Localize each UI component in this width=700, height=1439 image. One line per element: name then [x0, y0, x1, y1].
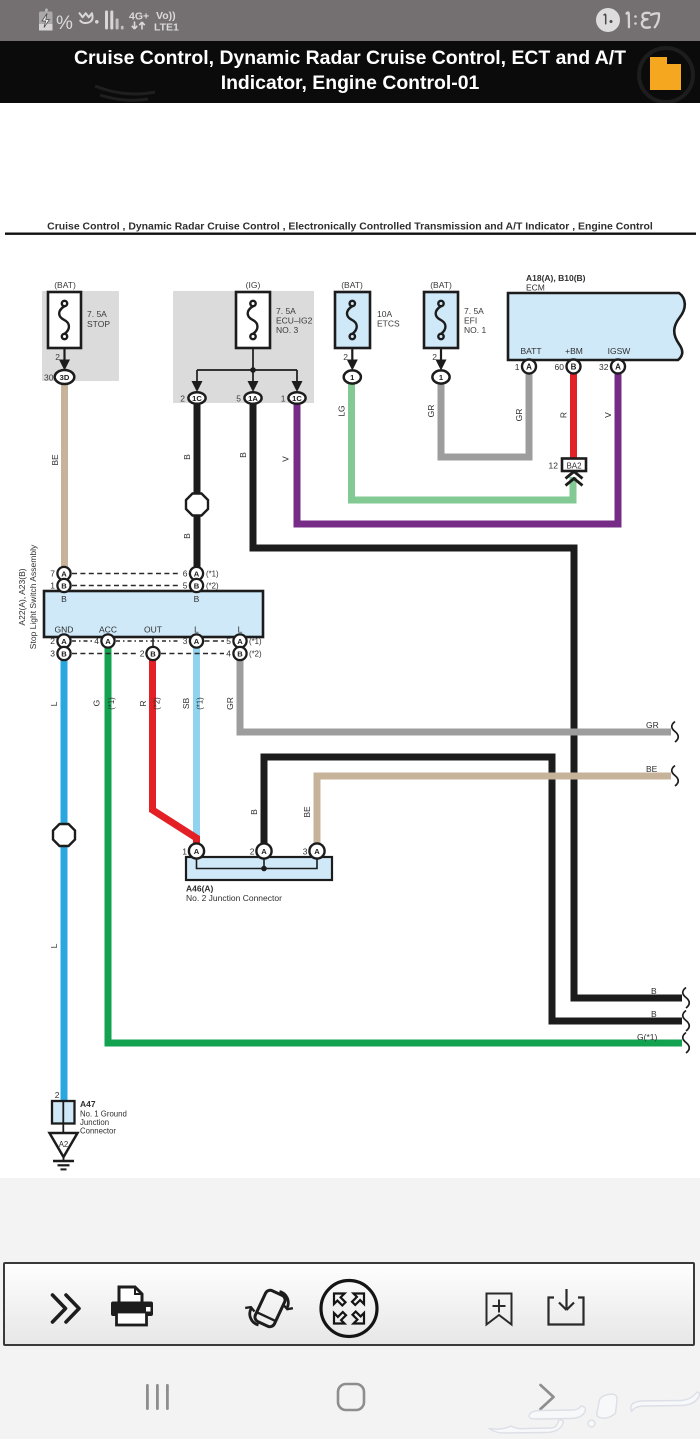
svg-text:B: B: [238, 452, 248, 458]
svg-text:A: A: [194, 847, 200, 856]
svg-text:GR: GR: [225, 697, 235, 710]
svg-text:A: A: [615, 363, 621, 372]
svg-text:(BAT): (BAT): [341, 280, 363, 290]
svg-text:4: 4: [226, 649, 231, 659]
svg-text:BA2: BA2: [566, 462, 582, 471]
svg-text:(IG): (IG): [246, 280, 261, 290]
svg-text:5: 5: [236, 394, 241, 404]
svg-text:10A: 10A: [377, 309, 392, 319]
svg-text:1: 1: [281, 394, 286, 404]
svg-text:2: 2: [55, 352, 60, 362]
svg-text:7. 5A: 7. 5A: [276, 306, 296, 316]
svg-text:5: 5: [226, 636, 231, 646]
svg-text:ETCS: ETCS: [377, 319, 400, 329]
svg-text:12: 12: [549, 461, 559, 471]
svg-text:(*1): (*1): [107, 697, 116, 710]
svg-text:2: 2: [180, 394, 185, 404]
svg-text:A: A: [61, 637, 67, 646]
svg-text:A: A: [61, 569, 67, 578]
svg-text:B: B: [194, 594, 200, 604]
svg-text:2: 2: [55, 1090, 60, 1100]
svg-text:LG: LG: [337, 405, 347, 416]
svg-text:NO. 3: NO. 3: [276, 325, 298, 335]
svg-text:A: A: [105, 637, 111, 646]
svg-text:(*1): (*1): [249, 637, 262, 646]
svg-text:ECM: ECM: [526, 283, 545, 293]
svg-text:2: 2: [343, 352, 348, 362]
svg-text:ECU–IG2: ECU–IG2: [276, 316, 313, 326]
svg-text:7. 5A: 7. 5A: [464, 306, 484, 316]
svg-text:R: R: [138, 700, 148, 706]
svg-text:B: B: [194, 581, 200, 590]
svg-text:B: B: [651, 1009, 657, 1019]
svg-text:G(*1): G(*1): [637, 1032, 657, 1042]
svg-text:3: 3: [50, 649, 55, 659]
svg-text:7. 5A: 7. 5A: [87, 309, 107, 319]
svg-text:OUT: OUT: [144, 625, 162, 635]
svg-text:B: B: [651, 986, 657, 996]
svg-text:R: R: [559, 412, 569, 418]
svg-text:1: 1: [50, 581, 55, 591]
svg-text:L: L: [49, 943, 59, 948]
svg-text:B: B: [571, 363, 577, 372]
svg-text:1C: 1C: [192, 394, 202, 403]
svg-text:ACC: ACC: [99, 625, 117, 635]
svg-text:B: B: [61, 581, 67, 590]
svg-text:2: 2: [250, 847, 255, 857]
svg-text:STOP: STOP: [87, 319, 110, 329]
svg-text:7: 7: [50, 569, 55, 579]
svg-text:A47: A47: [80, 1099, 96, 1109]
svg-text:IGSW: IGSW: [608, 346, 631, 356]
svg-text:32: 32: [599, 362, 609, 372]
svg-text:A: A: [314, 847, 320, 856]
svg-text:1: 1: [182, 847, 187, 857]
svg-text:V: V: [281, 456, 291, 462]
svg-text:GR: GR: [514, 409, 524, 422]
svg-text:A2: A2: [59, 1140, 69, 1149]
svg-text:2: 2: [50, 636, 55, 646]
svg-text:No. 2 Junction Connector: No. 2 Junction Connector: [186, 893, 282, 903]
svg-text:A: A: [194, 569, 200, 578]
svg-text:2: 2: [140, 649, 145, 659]
svg-text:Stop Light Switch Assembly: Stop Light Switch Assembly: [28, 544, 38, 649]
svg-text:A22(A), A23(B): A22(A), A23(B): [17, 568, 27, 625]
svg-text:(*1): (*1): [206, 570, 219, 579]
svg-text:(BAT): (BAT): [430, 280, 452, 290]
svg-text:BATT: BATT: [520, 346, 541, 356]
svg-text:3D: 3D: [60, 373, 70, 382]
svg-text:4: 4: [94, 636, 99, 646]
svg-text:L: L: [194, 625, 199, 635]
svg-text:A18(A), B10(B): A18(A), B10(B): [526, 273, 586, 283]
svg-text:B: B: [61, 649, 67, 658]
svg-text:1A: 1A: [248, 394, 258, 403]
svg-text:L: L: [49, 701, 59, 706]
svg-text:NO. 1: NO. 1: [464, 325, 486, 335]
svg-text:5: 5: [183, 581, 188, 591]
svg-text:1: 1: [515, 362, 520, 372]
svg-text:Cruise Control , Dynamic Radar: Cruise Control , Dynamic Radar Cruise Co…: [47, 222, 653, 233]
svg-text:+BM: +BM: [565, 346, 583, 356]
svg-text:B: B: [249, 809, 259, 815]
svg-text:EFI: EFI: [464, 316, 477, 326]
svg-text:30: 30: [44, 373, 54, 383]
svg-text:A: A: [194, 637, 200, 646]
svg-text:A: A: [526, 363, 532, 372]
svg-text:(*2): (*2): [206, 582, 219, 591]
svg-text:L: L: [238, 625, 243, 635]
svg-text:1C: 1C: [292, 394, 302, 403]
svg-text:B: B: [237, 649, 243, 658]
svg-text:BE: BE: [50, 454, 60, 466]
svg-text:(*2): (*2): [153, 697, 162, 710]
svg-text:B: B: [150, 649, 156, 658]
svg-text:60: 60: [555, 362, 565, 372]
svg-text:3: 3: [303, 847, 308, 857]
svg-text:GR: GR: [426, 405, 436, 418]
svg-text:V: V: [603, 412, 613, 418]
svg-text:2: 2: [432, 352, 437, 362]
svg-text:GR: GR: [646, 720, 659, 730]
svg-text:A: A: [237, 637, 243, 646]
svg-text:A46(A): A46(A): [186, 884, 214, 894]
svg-text:G: G: [92, 700, 102, 707]
svg-text:B: B: [182, 533, 192, 539]
svg-text:(BAT): (BAT): [54, 280, 76, 290]
svg-text:B: B: [61, 594, 67, 604]
svg-text:(*2): (*2): [249, 650, 262, 659]
svg-text:BE: BE: [302, 806, 312, 818]
svg-text:Connector: Connector: [80, 1127, 116, 1136]
svg-text:6: 6: [183, 569, 188, 579]
svg-text:(*1): (*1): [196, 697, 205, 710]
svg-text:GND: GND: [55, 625, 74, 635]
svg-text:3: 3: [183, 636, 188, 646]
svg-text:SB: SB: [181, 698, 191, 710]
svg-text:A: A: [261, 847, 267, 856]
svg-text:BE: BE: [646, 764, 658, 774]
svg-text:B: B: [182, 454, 192, 460]
